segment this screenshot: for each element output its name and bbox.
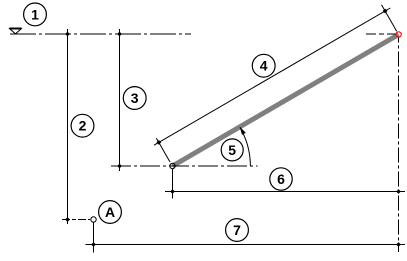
tick at dim3 bottom (119.5,166): [117, 164, 122, 169]
bubble 7: [226, 219, 249, 242]
bubble 3: [123, 87, 146, 110]
wire: dashed link to node A: [62, 219, 90, 221]
dimension line 7: [86, 244, 405, 246]
svg-text:4: 4: [260, 58, 268, 74]
dimension line 3 (vertical x=119.5): [119, 29, 121, 171]
svg-text:A: A: [105, 204, 115, 220]
tick at dim6 right (398.5,191.5): [396, 189, 401, 194]
bubble 5: [221, 139, 243, 161]
wire: right vertical dash-dot line: [398, 38, 400, 253]
red node at beam top end: [396, 32, 401, 37]
tick at dim7 right (398.5,244.5): [396, 242, 401, 247]
tick at dim4 lower end: [156, 140, 161, 145]
svg-text:2: 2: [79, 118, 87, 134]
wire: extension below node A: [93, 223, 95, 253]
wire: mid dash-dot line at beam base: [111, 165, 258, 167]
extension line dim4 lower: [156, 138, 170, 162]
wire: top datum dash-dot line: [10, 33, 191, 35]
dimension line 4 (parallel to beam): [154, 8, 390, 145]
wire: short dash-dot at red node level: [366, 33, 396, 35]
node A marker: [91, 217, 96, 222]
arrowhead on angle arc: [240, 127, 246, 135]
svg-text:7: 7: [233, 222, 241, 238]
tick at dim2 bottom (67.5,219.5): [65, 217, 70, 222]
datum triangle symbol: [10, 29, 22, 34]
tick at dim6 left (172.5,191.5): [170, 189, 175, 194]
tick at dim2 top (67.5,34): [65, 32, 70, 37]
svg-text:3: 3: [131, 90, 139, 106]
tick at dim7 left (93.5,244.5): [91, 242, 96, 247]
svg-text:1: 1: [31, 6, 39, 22]
bubble 6: [270, 168, 292, 190]
bubble 2: [71, 114, 94, 137]
angle arc for dim 5: [240, 127, 251, 166]
bubble A: [99, 201, 122, 224]
tick at dim3 top (119.5,34): [117, 32, 122, 37]
dimension line 6: [165, 191, 405, 193]
bubble 4: [252, 54, 275, 77]
dimension line 2 (vertical x=67.5): [67, 29, 69, 224]
beam (thick gray member): [173, 35, 399, 167]
wire: extension below beam start node: [172, 169, 174, 199]
node at beam start: [170, 163, 175, 168]
svg-text:6: 6: [277, 171, 285, 187]
extension line dim4 upper: [382, 5, 397, 31]
bubble 1: [24, 3, 47, 26]
svg-text:5: 5: [228, 142, 236, 158]
tick at dim4 upper end: [383, 9, 388, 14]
